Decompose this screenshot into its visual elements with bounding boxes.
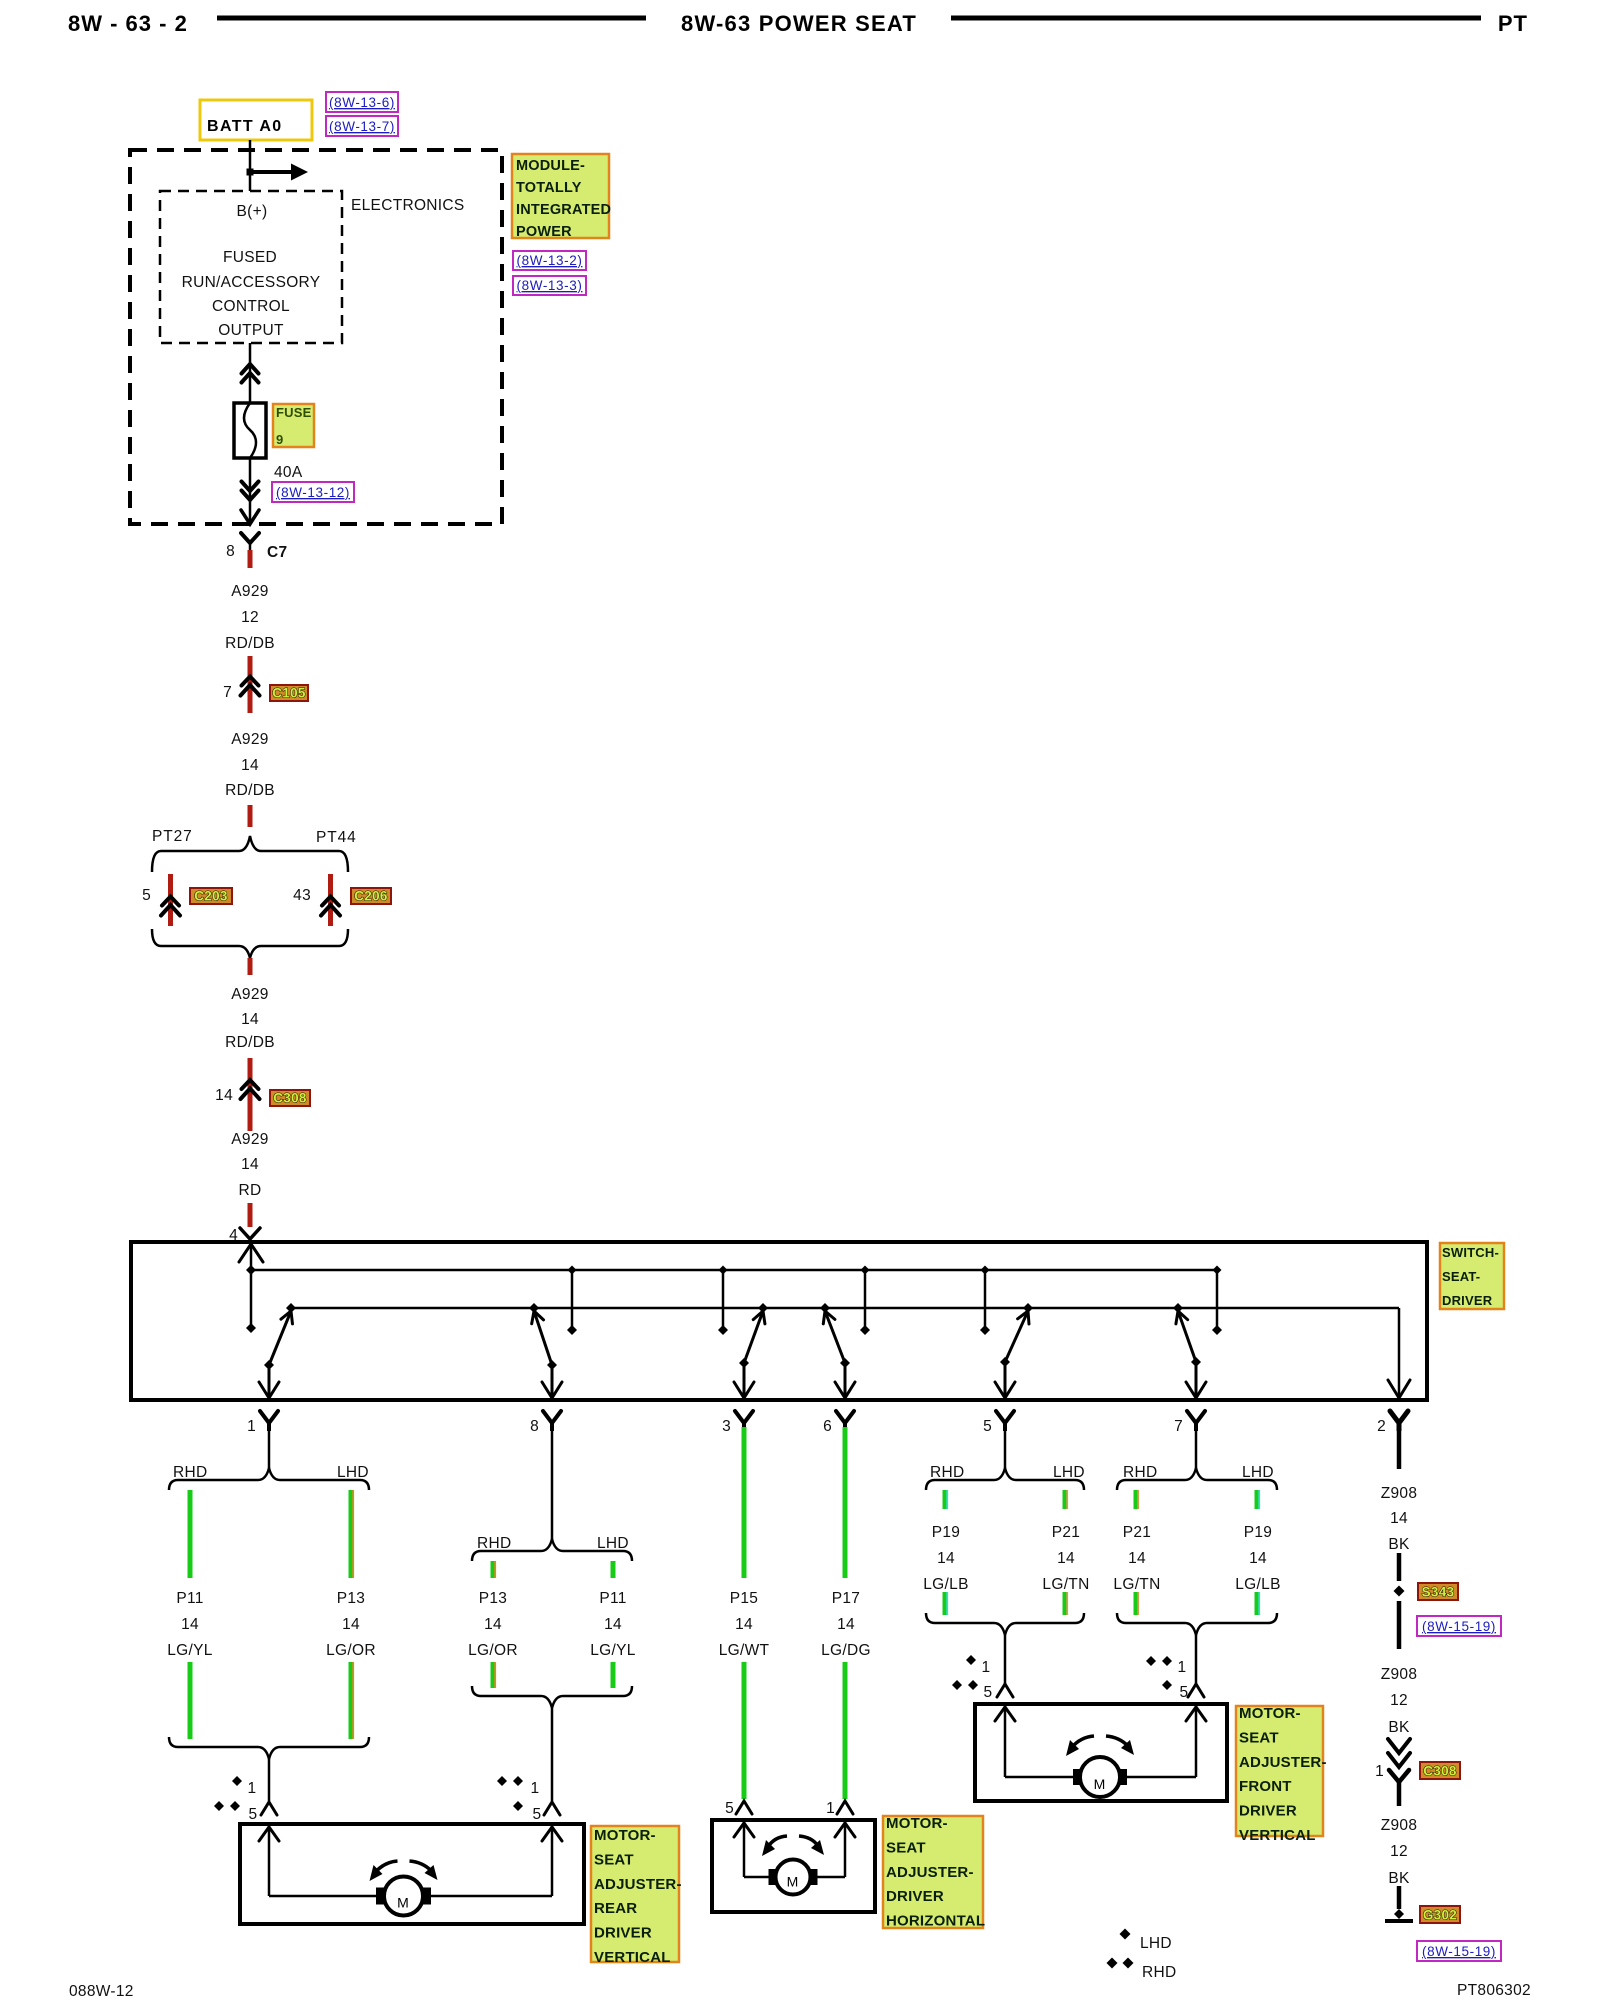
svg-text:088W-12: 088W-12 [69, 1983, 134, 2000]
svg-text:LG/TN: LG/TN [1042, 1576, 1089, 1593]
svg-text:14: 14 [1249, 1550, 1267, 1567]
svg-text:C203: C203 [194, 889, 228, 904]
svg-text:RHD: RHD [173, 1464, 207, 1481]
svg-text:CONTROL: CONTROL [212, 298, 290, 315]
svg-text:LG/YL: LG/YL [167, 1642, 213, 1659]
svg-text:7: 7 [223, 684, 232, 701]
svg-text:12: 12 [1390, 1692, 1408, 1709]
svg-text:DRIVER: DRIVER [1442, 1293, 1493, 1308]
svg-text:1: 1 [247, 1418, 256, 1435]
svg-text:5: 5 [249, 1806, 258, 1823]
svg-text:RHD: RHD [1123, 1464, 1157, 1481]
svg-text:DRIVER: DRIVER [1239, 1803, 1297, 1820]
svg-text:LG/LB: LG/LB [1235, 1576, 1280, 1593]
svg-text:Z908: Z908 [1381, 1666, 1418, 1683]
svg-text:14: 14 [604, 1616, 622, 1633]
svg-text:INTEGRATED: INTEGRATED [516, 202, 611, 218]
svg-text:Z908: Z908 [1381, 1485, 1418, 1502]
svg-text:14: 14 [484, 1616, 502, 1633]
svg-text:1: 1 [531, 1780, 540, 1797]
svg-text:RD/DB: RD/DB [225, 782, 275, 799]
svg-text:SEAT: SEAT [594, 1851, 634, 1868]
svg-text:A929: A929 [231, 986, 268, 1003]
svg-text:40A: 40A [274, 464, 303, 481]
svg-text:14: 14 [1057, 1550, 1075, 1567]
svg-text:7: 7 [1174, 1418, 1183, 1435]
svg-text:(8W-15-19): (8W-15-19) [1422, 1619, 1496, 1634]
svg-text:P19: P19 [1244, 1524, 1272, 1541]
svg-text:8W-63 POWER SEAT: 8W-63 POWER SEAT [681, 11, 917, 36]
svg-text:14: 14 [181, 1616, 199, 1633]
svg-text:14: 14 [837, 1616, 855, 1633]
svg-text:C7: C7 [267, 544, 287, 561]
svg-text:OUTPUT: OUTPUT [218, 322, 284, 339]
svg-text:14: 14 [735, 1616, 753, 1633]
svg-text:MOTOR-: MOTOR- [886, 1815, 948, 1832]
svg-text:P11: P11 [599, 1590, 626, 1607]
svg-text:43: 43 [293, 887, 311, 904]
svg-text:(8W-13-2): (8W-13-2) [517, 253, 583, 268]
svg-text:SWITCH-: SWITCH- [1442, 1245, 1499, 1260]
svg-text:14: 14 [215, 1087, 233, 1104]
svg-text:5: 5 [1180, 1684, 1189, 1701]
svg-text:MODULE-: MODULE- [516, 158, 585, 174]
svg-text:14: 14 [241, 757, 259, 774]
svg-text:A929: A929 [231, 583, 268, 600]
svg-text:BK: BK [1388, 1870, 1410, 1887]
svg-text:LG/YL: LG/YL [590, 1642, 636, 1659]
svg-text:14: 14 [241, 1156, 259, 1173]
svg-text:MOTOR-: MOTOR- [1239, 1705, 1301, 1722]
svg-text:DRIVER: DRIVER [886, 1888, 944, 1905]
svg-text:8: 8 [226, 543, 235, 560]
svg-text:LHD: LHD [1053, 1464, 1085, 1481]
svg-text:FUSE: FUSE [276, 405, 312, 420]
svg-text:Z908: Z908 [1381, 1817, 1418, 1834]
svg-text:SEAT: SEAT [1239, 1729, 1279, 1746]
svg-text:LHD: LHD [1242, 1464, 1274, 1481]
svg-text:P17: P17 [832, 1590, 860, 1607]
svg-text:C308: C308 [273, 1091, 307, 1106]
svg-text:A929: A929 [231, 1131, 268, 1148]
svg-text:14: 14 [342, 1616, 360, 1633]
svg-text:HORIZONTAL: HORIZONTAL [886, 1913, 985, 1930]
svg-text:(8W-13-3): (8W-13-3) [517, 278, 583, 293]
svg-text:RHD: RHD [477, 1535, 511, 1552]
svg-text:PT: PT [1498, 11, 1528, 36]
svg-text:B(+): B(+) [237, 203, 268, 220]
svg-text:REAR: REAR [594, 1900, 637, 1917]
svg-text:8W - 63 - 2: 8W - 63 - 2 [68, 11, 188, 36]
svg-text:POWER: POWER [516, 224, 572, 240]
svg-text:2: 2 [1377, 1418, 1386, 1435]
svg-text:TOTALLY: TOTALLY [516, 180, 582, 196]
svg-text:8: 8 [530, 1418, 539, 1435]
svg-text:RD/DB: RD/DB [225, 635, 275, 652]
svg-text:P13: P13 [337, 1590, 365, 1607]
svg-text:LG/DG: LG/DG [821, 1642, 871, 1659]
svg-text:14: 14 [241, 1011, 259, 1028]
svg-text:1: 1 [826, 1800, 835, 1817]
svg-text:LG/TN: LG/TN [1113, 1576, 1160, 1593]
svg-text:M: M [787, 1874, 799, 1890]
svg-text:ELECTRONICS: ELECTRONICS [351, 197, 465, 214]
svg-text:P21: P21 [1123, 1524, 1151, 1541]
svg-text:MOTOR-: MOTOR- [594, 1827, 656, 1844]
svg-text:5: 5 [142, 887, 151, 904]
svg-text:LG/OR: LG/OR [468, 1642, 518, 1659]
svg-text:VERTICAL: VERTICAL [1239, 1827, 1316, 1844]
svg-text:VERTICAL: VERTICAL [594, 1949, 671, 1966]
svg-text:BATT A0: BATT A0 [207, 118, 283, 135]
svg-text:RD: RD [239, 1182, 262, 1199]
svg-text:12: 12 [1390, 1843, 1408, 1860]
svg-text:G302: G302 [1423, 1908, 1457, 1923]
svg-text:5: 5 [725, 1800, 734, 1817]
svg-text:LHD: LHD [1140, 1935, 1172, 1952]
svg-text:DRIVER: DRIVER [594, 1925, 652, 1942]
svg-text:BK: BK [1388, 1719, 1410, 1736]
svg-text:PT44: PT44 [316, 829, 357, 846]
svg-text:14: 14 [1390, 1510, 1408, 1527]
svg-text:9: 9 [276, 432, 283, 447]
svg-text:12: 12 [241, 609, 259, 626]
svg-text:P13: P13 [479, 1590, 507, 1607]
svg-text:M: M [397, 1895, 409, 1911]
svg-text:(8W-13-12): (8W-13-12) [276, 485, 350, 500]
svg-text:1: 1 [1375, 1763, 1384, 1780]
svg-text:SEAT: SEAT [886, 1839, 926, 1856]
svg-text:LHD: LHD [597, 1535, 629, 1552]
svg-text:1: 1 [248, 1780, 257, 1797]
svg-text:14: 14 [1128, 1550, 1146, 1567]
svg-text:5: 5 [983, 1418, 992, 1435]
svg-text:LG/LB: LG/LB [923, 1576, 968, 1593]
svg-text:(8W-15-19): (8W-15-19) [1422, 1944, 1496, 1959]
svg-text:FUSED: FUSED [223, 249, 277, 266]
svg-text:(8W-13-6): (8W-13-6) [329, 95, 395, 110]
svg-text:RHD: RHD [930, 1464, 964, 1481]
svg-text:ADJUSTER-: ADJUSTER- [594, 1876, 682, 1893]
svg-text:RD/DB: RD/DB [225, 1034, 275, 1051]
svg-text:C308: C308 [1423, 1764, 1457, 1779]
svg-text:ADJUSTER-: ADJUSTER- [1239, 1754, 1327, 1771]
svg-text:BK: BK [1388, 1536, 1410, 1553]
svg-text:RHD: RHD [1142, 1964, 1176, 1981]
svg-text:A929: A929 [231, 731, 268, 748]
svg-text:1: 1 [982, 1659, 991, 1676]
svg-text:14: 14 [937, 1550, 955, 1567]
svg-text:3: 3 [722, 1418, 731, 1435]
svg-text:1: 1 [1178, 1659, 1187, 1676]
svg-text:6: 6 [823, 1418, 832, 1435]
svg-text:LG/WT: LG/WT [719, 1642, 770, 1659]
svg-text:ADJUSTER-: ADJUSTER- [886, 1864, 974, 1881]
svg-text:P15: P15 [730, 1590, 758, 1607]
svg-text:P11: P11 [176, 1590, 203, 1607]
svg-text:M: M [1094, 1776, 1106, 1792]
svg-text:FRONT: FRONT [1239, 1778, 1292, 1795]
svg-text:LHD: LHD [337, 1464, 369, 1481]
svg-text:P19: P19 [932, 1524, 960, 1541]
svg-text:C206: C206 [354, 889, 388, 904]
svg-text:RUN/ACCESSORY: RUN/ACCESSORY [182, 274, 321, 291]
svg-text:SEAT-: SEAT- [1442, 1269, 1480, 1284]
svg-text:PT806302: PT806302 [1457, 1982, 1531, 1999]
svg-text:PT27: PT27 [152, 828, 193, 845]
svg-text:C105: C105 [272, 686, 306, 701]
svg-text:LG/OR: LG/OR [326, 1642, 376, 1659]
svg-text:P21: P21 [1052, 1524, 1080, 1541]
svg-text:5: 5 [533, 1806, 542, 1823]
svg-text:S343: S343 [1422, 1585, 1455, 1600]
svg-text:5: 5 [984, 1684, 993, 1701]
svg-text:(8W-13-7): (8W-13-7) [329, 119, 395, 134]
